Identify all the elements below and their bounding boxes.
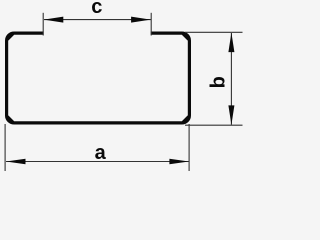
- dimension c extension line right: [150, 13, 152, 36]
- svg-text:a: a: [95, 142, 107, 164]
- dimension c line: [44, 19, 151, 21]
- dimension a arrow right: [169, 159, 189, 165]
- dimension c arrow right: [131, 17, 151, 23]
- dimension a extension line left: [4, 124, 6, 171]
- top slot opening: [44, 29, 151, 37]
- profile inner cavity (chamfered octagon): [8, 35, 188, 122]
- dimension b line: [230, 33, 232, 125]
- dimension a line: [6, 161, 189, 163]
- profile outline (outer rounded): [5, 32, 191, 125]
- svg-text:c: c: [91, 0, 102, 18]
- svg-text:b: b: [208, 76, 230, 88]
- dimension a extension line right: [188, 124, 190, 171]
- dimension a arrow left: [6, 159, 26, 165]
- dimension b extension line top: [185, 31, 243, 33]
- dimension b arrow bottom: [228, 105, 234, 125]
- dimension c extension line left: [42, 13, 44, 36]
- dimension b arrow top: [228, 33, 234, 53]
- dimension b extension line bottom: [185, 124, 243, 126]
- dimension c arrow left: [44, 17, 64, 23]
